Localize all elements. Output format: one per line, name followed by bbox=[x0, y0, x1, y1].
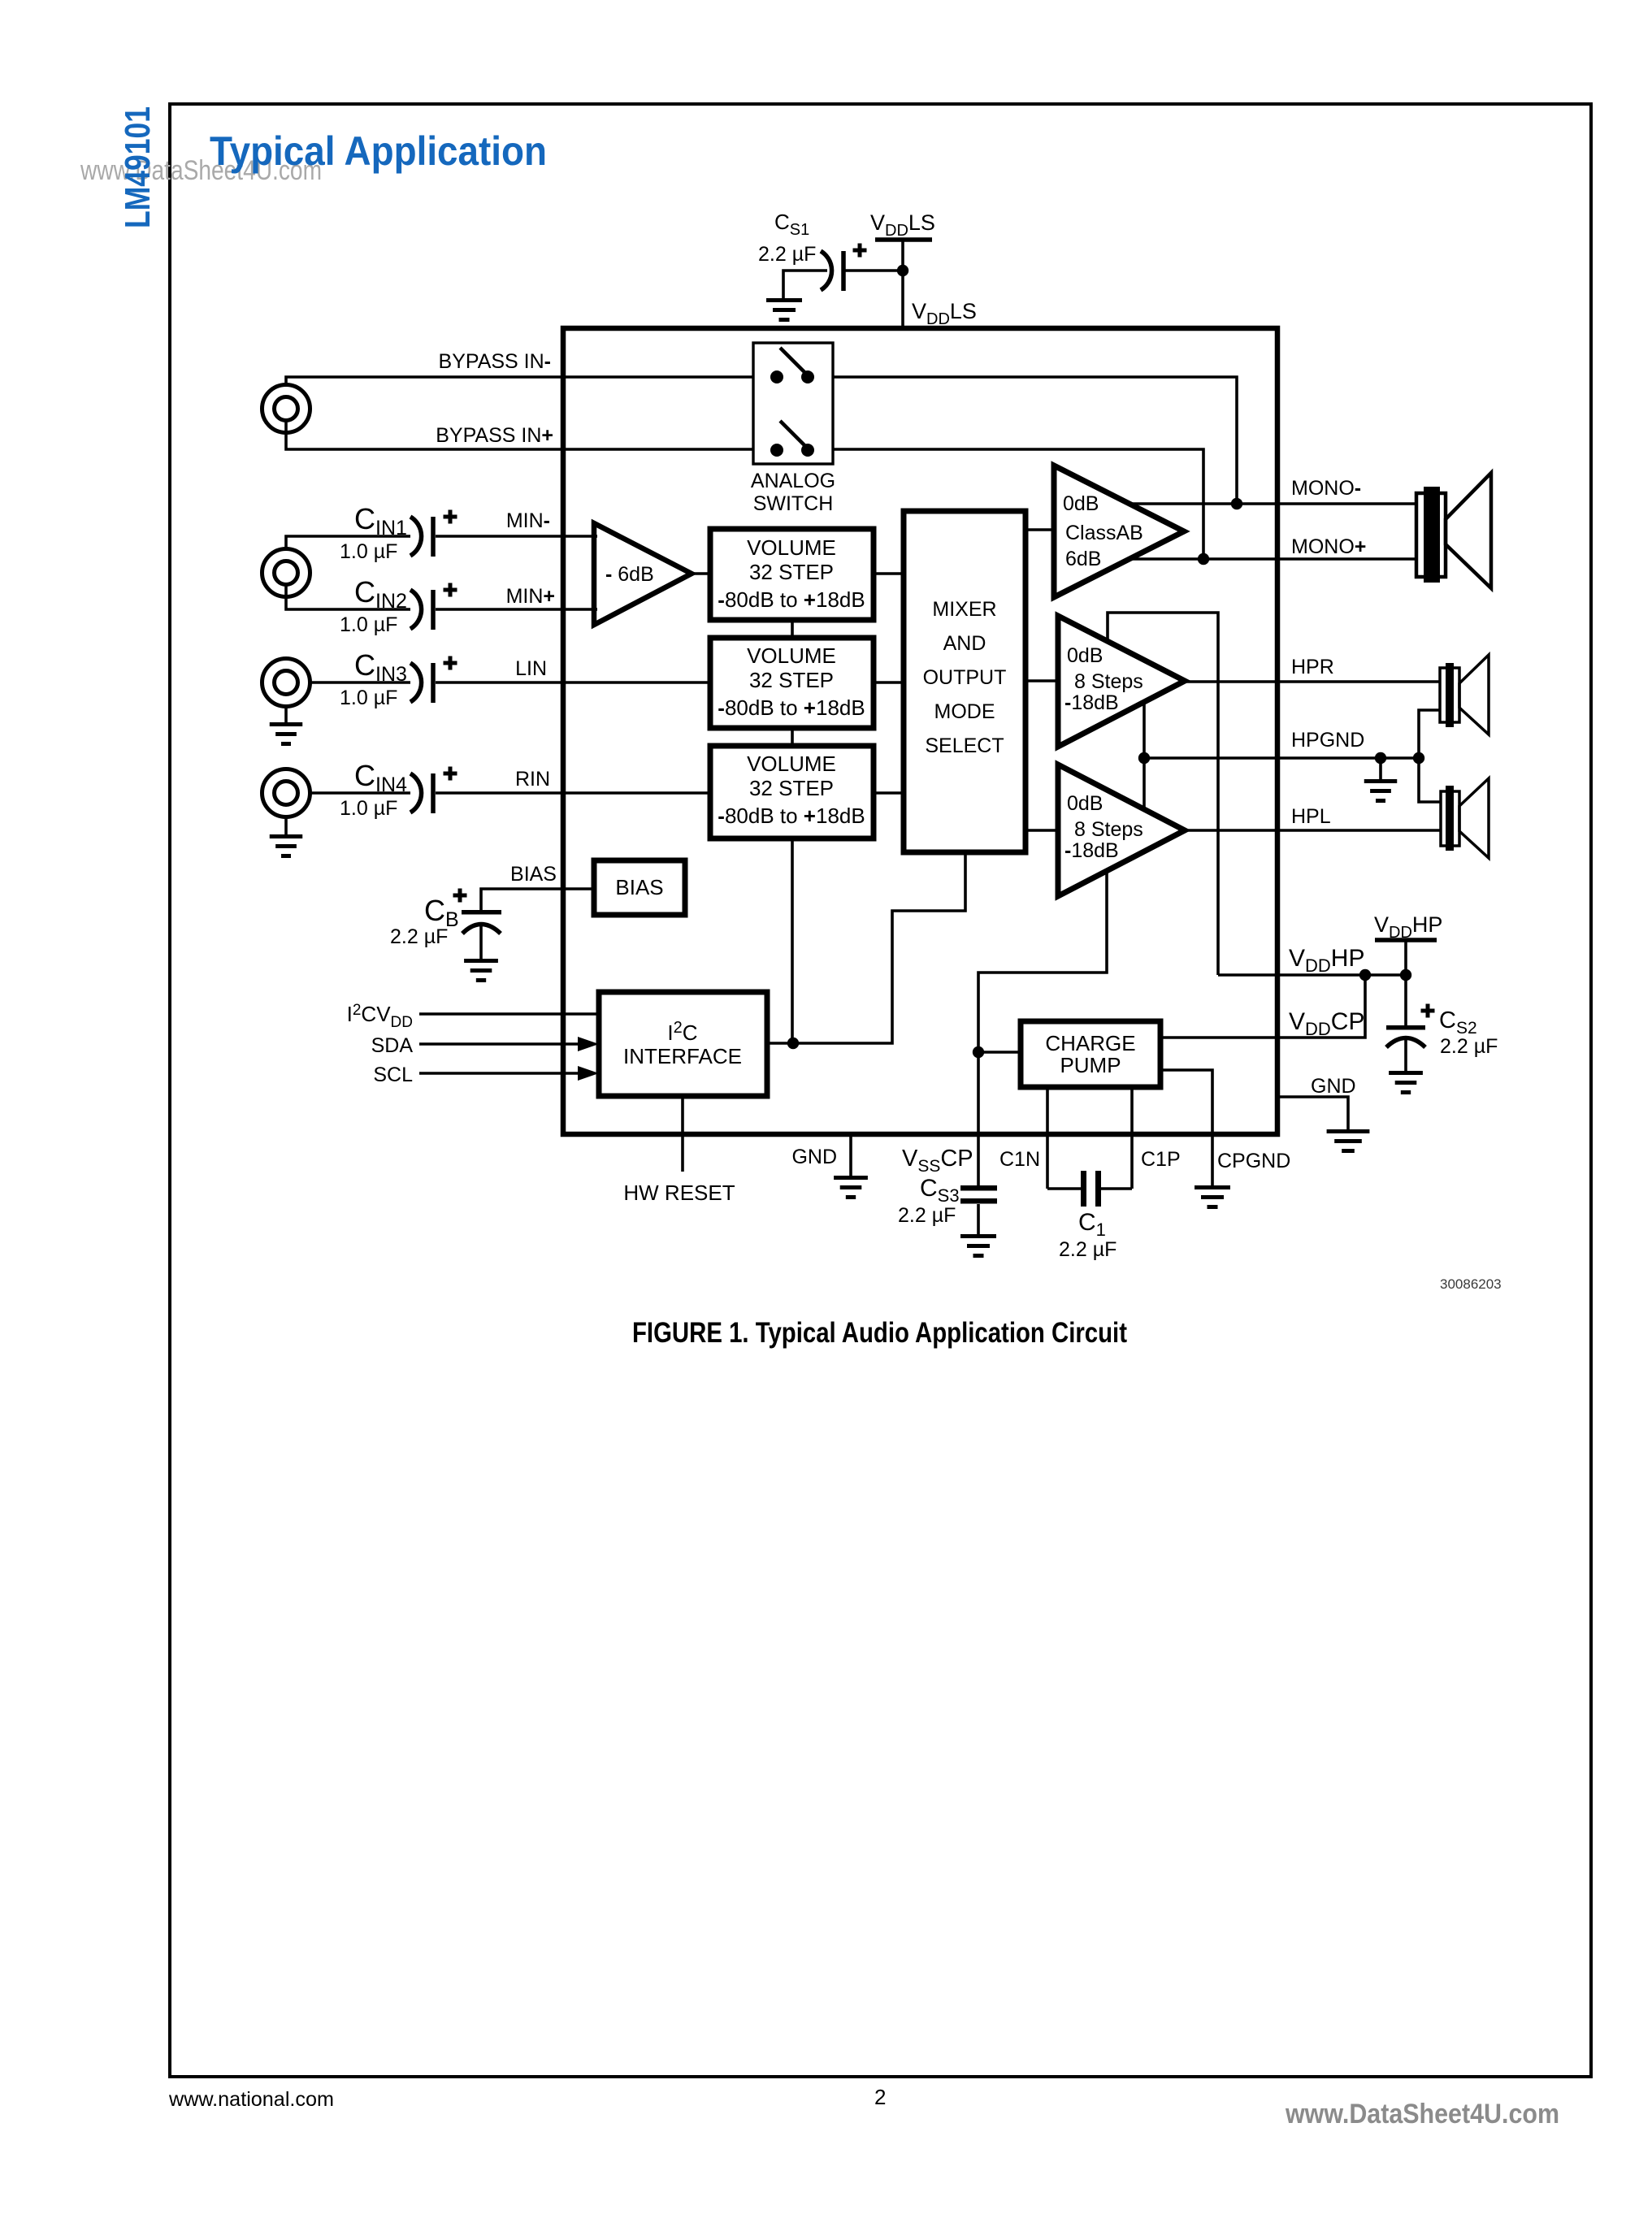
svg-text:CIN2​: CIN2​ bbox=[354, 575, 407, 613]
svg-text:SCL: SCL bbox=[373, 1064, 413, 1086]
wire MIN+ to -6dB amp bbox=[436, 608, 597, 611]
svg-text:MIN-: MIN- bbox=[506, 509, 550, 532]
svg-text:CIN3​: CIN3​ bbox=[354, 648, 407, 686]
ground for CS3 bbox=[960, 1234, 996, 1238]
wire HPR amp bottom to HPGND and HPL amp top bbox=[1143, 702, 1146, 809]
wire RIN to volume block 3 bbox=[436, 791, 710, 795]
op-amp HPR headphone amplifier bbox=[1058, 616, 1185, 747]
svg-text:-18dB: -18dB bbox=[1064, 839, 1119, 862]
speaker headphone right bbox=[1440, 668, 1459, 722]
analog switch pole 2 contacts bbox=[770, 444, 783, 457]
svg-text:0dB: 0dB bbox=[1067, 644, 1103, 667]
ground for J4 bbox=[284, 817, 288, 834]
wire BYPASS IN- from analog switch to MONO- node bbox=[833, 377, 1237, 504]
wire VDDHP rail out of IC bbox=[1218, 973, 1406, 977]
speaker headphone left bbox=[1441, 791, 1459, 846]
svg-text:32 STEP: 32 STEP bbox=[749, 668, 834, 692]
svg-text:C1P: C1P bbox=[1141, 1148, 1181, 1171]
wire J3 to CIN3 bbox=[310, 681, 410, 684]
svg-text:VDD​HP: VDD​HP bbox=[1289, 945, 1364, 976]
wire VDDLS bar to IC top edge bbox=[901, 240, 904, 328]
capacitor C1 symbol bbox=[1047, 1187, 1082, 1190]
svg-text:I2CVDD: I2CVDD bbox=[347, 1002, 413, 1031]
wire I2CVDD to I2C interface bbox=[419, 1012, 599, 1016]
block I2C interface bbox=[599, 992, 767, 1096]
ground for CB bbox=[464, 959, 498, 963]
connector J2 MIN RCA jack bbox=[262, 549, 310, 597]
svg-text:ClassAB: ClassAB bbox=[1065, 522, 1143, 544]
wire volume2 to volume3 bbox=[791, 728, 794, 746]
wire CPGND from charge pump to ground bbox=[1160, 1070, 1212, 1185]
wire charge pump input from VSSCP line bbox=[978, 1051, 1021, 1054]
svg-text:VDD​HP: VDD​HP bbox=[1374, 912, 1442, 942]
wire J2 to CIN2 bbox=[286, 585, 410, 609]
ground for CPGND bbox=[1195, 1185, 1230, 1189]
wire SCL to I2C interface bbox=[419, 1072, 583, 1075]
svg-text:2.2 µF: 2.2 µF bbox=[1440, 1035, 1498, 1058]
svg-text:MONO-: MONO- bbox=[1291, 477, 1361, 500]
node HPGND external junction 1 bbox=[1375, 752, 1386, 764]
svg-text:I2C: I2C bbox=[667, 1019, 697, 1045]
svg-text:HPL: HPL bbox=[1291, 805, 1331, 828]
svg-text:30086203: 30086203 bbox=[1440, 1276, 1502, 1292]
svg-text:OUTPUT: OUTPUT bbox=[923, 666, 1007, 689]
wire C1P from charge pump to C1 bbox=[1130, 1087, 1134, 1189]
svg-text:GND: GND bbox=[1311, 1075, 1356, 1098]
svg-text:1.0 µF: 1.0 µF bbox=[340, 613, 397, 636]
capacitor CS2 symbol bbox=[1404, 975, 1407, 1025]
wire GND pin right side bbox=[1277, 1097, 1348, 1129]
wire volume3 down to I2C node bbox=[791, 838, 794, 1043]
svg-text:MIXER: MIXER bbox=[932, 598, 996, 621]
block BIAS bbox=[594, 860, 685, 915]
wire volume3 output to mixer bbox=[874, 791, 904, 795]
op-amp -6dB attenuator bbox=[594, 523, 692, 625]
wire MONO- output bbox=[1128, 502, 1416, 505]
wire I2C output to mixer bottom bbox=[767, 852, 965, 1043]
block volume control 1 bbox=[710, 529, 874, 620]
svg-text:BIAS: BIAS bbox=[615, 875, 663, 899]
node VDDHP junction 2 bbox=[1400, 969, 1411, 981]
wire volume1 output to mixer bbox=[874, 572, 904, 575]
wire BYPASS IN+ from J1 to analog switch bbox=[286, 421, 753, 449]
svg-text:SWITCH: SWITCH bbox=[753, 492, 834, 515]
svg-text:VSS​CP: VSS​CP bbox=[902, 1146, 973, 1176]
node MONO+ junction bbox=[1198, 553, 1209, 565]
ground for CS1 bbox=[766, 298, 802, 302]
svg-text:AND: AND bbox=[943, 632, 986, 655]
wire J4 to CIN4 bbox=[310, 791, 410, 795]
svg-text:-80dB to +18dB: -80dB to +18dB bbox=[718, 587, 865, 612]
supply VDDHP bar bbox=[1375, 938, 1437, 942]
svg-text:ANALOG: ANALOG bbox=[751, 470, 835, 492]
svg-text:Typical Application: Typical Application bbox=[210, 128, 547, 174]
svg-text:PUMP: PUMP bbox=[1060, 1053, 1121, 1077]
svg-text:VDD​LS: VDD​LS bbox=[912, 299, 977, 328]
capacitor CIN3 symbol bbox=[410, 663, 422, 702]
svg-text:-80dB to +18dB: -80dB to +18dB bbox=[718, 695, 865, 720]
wire MIN- to -6dB amp bbox=[436, 535, 597, 538]
supply VDDLS bar bbox=[875, 237, 932, 242]
svg-text:BYPASS IN+: BYPASS IN+ bbox=[436, 424, 553, 447]
block volume control 2 bbox=[710, 638, 874, 728]
svg-text:-80dB to +18dB: -80dB to +18dB bbox=[718, 804, 865, 828]
svg-text:VOLUME: VOLUME bbox=[747, 535, 836, 560]
op-amp mono ClassAB amplifier bbox=[1054, 466, 1184, 597]
op-amp HPL headphone amplifier bbox=[1058, 765, 1185, 896]
wire BYPASS IN- from J1 to analog switch bbox=[286, 377, 753, 385]
svg-text:BYPASS IN-: BYPASS IN- bbox=[439, 350, 551, 373]
svg-text:INTERFACE: INTERFACE bbox=[623, 1044, 742, 1068]
svg-text:0dB: 0dB bbox=[1067, 792, 1103, 815]
capacitor CIN1 symbol bbox=[410, 517, 422, 556]
svg-text:BIAS: BIAS bbox=[510, 863, 557, 886]
capacitor CS1 symbol bbox=[821, 251, 832, 290]
svg-text:32 STEP: 32 STEP bbox=[749, 560, 834, 584]
svg-text:SDA: SDA bbox=[371, 1034, 414, 1057]
node VDDHP junction 1 bbox=[1359, 969, 1371, 981]
wire HPGND to external ground bbox=[1144, 756, 1419, 760]
analog switch pole 1 lever bbox=[780, 348, 808, 375]
block mixer and output mode select bbox=[904, 511, 1025, 852]
node VSSCP junction bbox=[973, 1046, 984, 1058]
svg-text:CS1​: CS1​ bbox=[774, 210, 809, 239]
analog switch pole 2 lever bbox=[780, 421, 808, 448]
svg-text:LIN: LIN bbox=[515, 657, 547, 680]
svg-text:6dB: 6dB bbox=[1065, 548, 1101, 570]
svg-text:- 6dB: - 6dB bbox=[605, 563, 654, 586]
svg-text:MIN+: MIN+ bbox=[506, 585, 555, 608]
svg-text:HW RESET: HW RESET bbox=[623, 1181, 735, 1205]
wire MONO+ output bbox=[1130, 557, 1416, 561]
wire HPL output to headphone left bbox=[1185, 829, 1441, 832]
ground for GND left bbox=[834, 1176, 868, 1180]
wire SDA to I2C interface bbox=[419, 1042, 583, 1046]
ground for HPGND bbox=[1379, 758, 1382, 779]
IC boundary LM49101 bbox=[563, 328, 1277, 1134]
wire CS1 left to ground bbox=[783, 271, 827, 298]
wire mixer to HPR amp input bbox=[1025, 679, 1058, 682]
svg-text:HPR: HPR bbox=[1291, 656, 1334, 678]
svg-text:1.0 µF: 1.0 µF bbox=[340, 797, 397, 820]
wire C1N from charge pump to C1 bbox=[1046, 1087, 1049, 1189]
wire -6dB amp output to volume block 1 bbox=[692, 572, 710, 575]
svg-text:2.2 µF: 2.2 µF bbox=[898, 1204, 956, 1227]
svg-text:VOLUME: VOLUME bbox=[747, 752, 836, 776]
svg-text:2.2 µF: 2.2 µF bbox=[758, 243, 816, 266]
wire mixer to ClassAB amp input bbox=[1025, 528, 1054, 531]
svg-text:8 Steps: 8 Steps bbox=[1074, 670, 1143, 693]
svg-text:LM49101: LM49101 bbox=[118, 106, 158, 228]
wire HPR amp power to VDDHP rail bbox=[1108, 613, 1218, 975]
wire CS1 right plate to VDDLS node bbox=[843, 269, 903, 272]
svg-text:1.0 µF: 1.0 µF bbox=[340, 687, 397, 709]
svg-text:VDD​CP: VDD​CP bbox=[1289, 1008, 1364, 1039]
analog switch pole 1 contacts bbox=[770, 370, 783, 383]
ground for CS2 bbox=[1389, 1071, 1423, 1075]
svg-text:0dB: 0dB bbox=[1063, 492, 1099, 515]
svg-text:C1N: C1N bbox=[999, 1148, 1040, 1171]
svg-text:CPGND: CPGND bbox=[1217, 1150, 1290, 1172]
svg-text:2: 2 bbox=[874, 2085, 886, 2109]
svg-text:1.0 µF: 1.0 µF bbox=[340, 540, 397, 563]
svg-text:SELECT: SELECT bbox=[925, 734, 1004, 757]
node MONO- junction bbox=[1231, 498, 1242, 509]
svg-text:VOLUME: VOLUME bbox=[747, 643, 836, 668]
svg-text:-18dB: -18dB bbox=[1064, 691, 1119, 714]
wire HW RESET stem bbox=[681, 1095, 684, 1172]
node VDDLS junction bbox=[897, 265, 908, 276]
wire HPR output to headphone right bbox=[1185, 680, 1440, 683]
analog switch box bbox=[753, 343, 833, 464]
capacitor CIN2 symbol bbox=[410, 590, 422, 629]
connector J3 LIN RCA jack bbox=[262, 659, 310, 707]
block volume control 3 bbox=[710, 746, 874, 838]
svg-text:www.DataSheet4U.com: www.DataSheet4U.com bbox=[1285, 2099, 1559, 2130]
connector J4 RIN RCA jack bbox=[262, 769, 310, 817]
wire mixer to HPL amp input bbox=[1025, 829, 1058, 832]
node HPGND junction at amps bbox=[1138, 752, 1150, 764]
svg-text:www.national.com: www.national.com bbox=[168, 2088, 334, 2111]
svg-text:CIN1​: CIN1​ bbox=[354, 502, 407, 539]
wire J2 to CIN1 bbox=[286, 536, 410, 549]
node HPGND external junction 2 bbox=[1413, 752, 1424, 764]
wire GND left stem bbox=[849, 1134, 852, 1176]
capacitor CB symbol bbox=[462, 910, 501, 915]
svg-text:MODE: MODE bbox=[934, 700, 995, 723]
wire BIAS pin to bias block and CB bbox=[481, 889, 594, 910]
svg-text:RIN: RIN bbox=[515, 768, 550, 791]
wire HPGND to headphone right return bbox=[1419, 710, 1440, 758]
ground for J3 bbox=[284, 706, 288, 722]
svg-text:GND: GND bbox=[791, 1146, 837, 1168]
svg-text:FIGURE 1. Typical Audio Applic: FIGURE 1. Typical Audio Application Circ… bbox=[632, 1317, 1127, 1349]
wire volume1 to volume2 bbox=[791, 620, 794, 638]
wire volume2 output to mixer bbox=[874, 681, 904, 684]
ground for GND right bbox=[1327, 1129, 1370, 1133]
wire VDDCP from charge pump to VDDHP node bbox=[1160, 975, 1365, 1038]
svg-text:CIN4​: CIN4​ bbox=[354, 759, 407, 796]
svg-text:HPGND: HPGND bbox=[1291, 729, 1364, 752]
svg-text:VDD​LS: VDD​LS bbox=[870, 210, 935, 240]
svg-text:MONO+: MONO+ bbox=[1291, 535, 1366, 558]
connector J1 bypass RCA jack bbox=[262, 385, 310, 433]
capacitor CIN4 symbol bbox=[410, 773, 422, 812]
wire LIN to volume block 2 bbox=[436, 681, 710, 684]
svg-text:CHARGE: CHARGE bbox=[1045, 1031, 1135, 1055]
svg-text:8 Steps: 8 Steps bbox=[1074, 818, 1143, 841]
svg-text:CS2​: CS2​ bbox=[1439, 1007, 1477, 1038]
wire BYPASS IN+ from analog switch to MONO+ node bbox=[833, 449, 1203, 559]
svg-text:CS3​: CS3​ bbox=[920, 1175, 960, 1206]
svg-text:32 STEP: 32 STEP bbox=[749, 776, 834, 800]
speaker mono loudspeaker bbox=[1416, 493, 1446, 577]
wire HPL amp power down to VSSCP bbox=[978, 871, 1107, 1052]
node I2C output junction bbox=[787, 1038, 799, 1049]
svg-text:2.2 µF: 2.2 µF bbox=[1059, 1238, 1117, 1261]
svg-text:C1​: C1​ bbox=[1078, 1209, 1106, 1240]
wire HPGND to headphone left return bbox=[1419, 758, 1441, 802]
capacitor CS3 symbol bbox=[960, 1185, 997, 1191]
wire VSSCP down to CS3 bbox=[977, 1052, 980, 1186]
block charge pump bbox=[1021, 1021, 1160, 1087]
svg-text:2.2 µF: 2.2 µF bbox=[390, 925, 448, 948]
